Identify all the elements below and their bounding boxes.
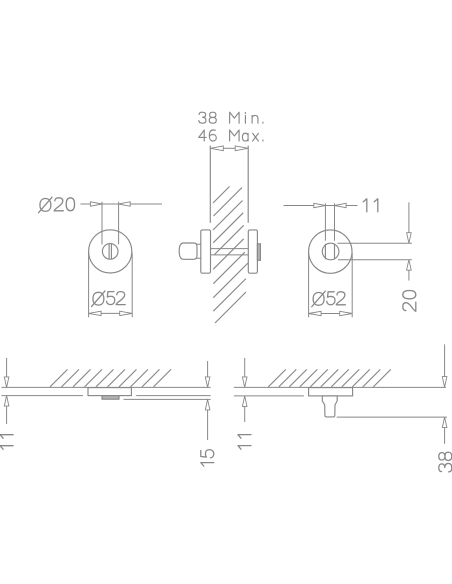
- dimension 11 top: extension lines: [325, 203, 334, 240]
- bottom left dimension 11: dimension line: [6, 358, 8, 424]
- dimension 20: rotated text: [403, 291, 416, 312]
- spindle rod through wall: [211, 249, 249, 255]
- right rosette side profile plate: [248, 230, 257, 273]
- bottom right dimension 38: dimension line: [444, 344, 446, 443]
- rosette left front view: outer circle Ø52: [89, 230, 132, 273]
- bottom right: stem bottom extension line: [337, 416, 447, 418]
- bottom left: disc bottom extension lines: [2, 395, 211, 397]
- dimension 11 top: text: [363, 199, 378, 212]
- bottom right: rosette disc side view: [309, 388, 353, 396]
- wall hatching: [213, 187, 248, 324]
- dimension 11 top: dimension line: [284, 205, 358, 207]
- dimension Ø52 right: dimension line: [321, 313, 340, 315]
- wall thickness dimension line: [223, 147, 235, 149]
- dimension Ø20: dimension line: [80, 203, 162, 205]
- bottom right dimension 11: upper arrowhead: [242, 377, 247, 388]
- rosette right: thumbturn slot sides: [325, 244, 334, 259]
- dimension 20: extension lines: [338, 243, 412, 260]
- thumbturn neck lines: [197, 244, 201, 258]
- dimension Ø52 left: dimension line: [101, 312, 120, 314]
- dimension Ø20: text: [39, 197, 75, 213]
- bottom left dimension 11: rotated text: [0, 435, 13, 450]
- dimension Ø20: right arrowhead: [119, 202, 131, 206]
- rosette left: emergency release slot: [109, 244, 111, 259]
- right side cylinder tab gray: [257, 244, 260, 260]
- bottom right dimension 38: lower arrowhead: [442, 417, 447, 428]
- dimension 20: upper arrowhead: [407, 233, 412, 244]
- wall dimension right arrowhead: [235, 146, 248, 151]
- bottom left: mounting surface line: [2, 386, 211, 388]
- dimension Ø52 right: extension lines: [309, 253, 353, 317]
- wall dimension left arrowhead: [210, 146, 223, 151]
- thumbturn knob side view: [179, 243, 197, 259]
- wall right edge: [247, 146, 249, 223]
- bottom right dimension 11: dimension line: [244, 358, 246, 422]
- dimension Ø52 left: left arrowhead: [89, 311, 102, 315]
- bottom left dimension 15: upper arrowhead: [205, 377, 210, 388]
- dimension Ø52 right: right arrowhead: [340, 311, 353, 315]
- dimension Ø52 left: right arrowhead: [120, 311, 133, 315]
- bottom left: boss bottom extension line: [124, 398, 211, 400]
- bottom right dimension 38: upper arrowhead: [442, 377, 447, 388]
- bottom left dimension 11: lower arrowhead: [4, 396, 9, 407]
- rosette left front view: inner boss circle Ø20: [102, 244, 118, 260]
- dimension 11 top: right arrowhead: [335, 203, 347, 207]
- left rosette side profile plate: [201, 230, 211, 273]
- dimension Ø52 left: extension lines: [89, 253, 133, 318]
- wall section text 46 Max.: [199, 130, 263, 141]
- dimension 11 top: left arrowhead: [314, 203, 326, 207]
- bottom right: disc bottom extension line: [234, 395, 304, 397]
- bottom left dimension 15: lower arrowhead: [205, 399, 210, 410]
- bottom left dimension 15: rotated text: [201, 450, 214, 467]
- bottom right: surface hatch ticks: [268, 369, 391, 387]
- bottom right dimension 38: rotated text: [439, 452, 452, 472]
- dimension 20: dimension line lower: [408, 270, 410, 280]
- bottom right dimension 11: rotated text: [238, 435, 251, 450]
- dimension Ø52 left: text: [92, 291, 126, 307]
- bottom left dimension 15: dimension line: [207, 361, 209, 440]
- wall left edge: [209, 146, 211, 223]
- rosette right front view: inner circle Ø20: [322, 243, 339, 260]
- wall section text 38 Min.: [199, 112, 263, 123]
- dimension 20: lower arrowhead: [407, 260, 412, 271]
- dimension 20: dimension line upper: [408, 202, 410, 232]
- bottom left dimension 11: upper arrowhead: [4, 377, 9, 388]
- bottom right: thumbturn stem side view: [322, 396, 337, 417]
- bottom left: boss gray: [102, 396, 119, 400]
- bottom right dimension 11: lower arrowhead: [242, 396, 247, 407]
- rosette right front view: outer circle Ø52: [309, 230, 352, 273]
- dimension Ø20: extension lines: [102, 202, 119, 245]
- dimension Ø20: left arrowhead: [90, 202, 102, 206]
- bottom right: mounting surface line: [234, 386, 446, 388]
- dimension Ø52 right: text: [312, 291, 346, 307]
- dimension Ø52 right: left arrowhead: [309, 311, 322, 315]
- bottom left: surface hatch ticks: [50, 369, 171, 387]
- bottom left: rosette disc side view: [88, 388, 131, 396]
